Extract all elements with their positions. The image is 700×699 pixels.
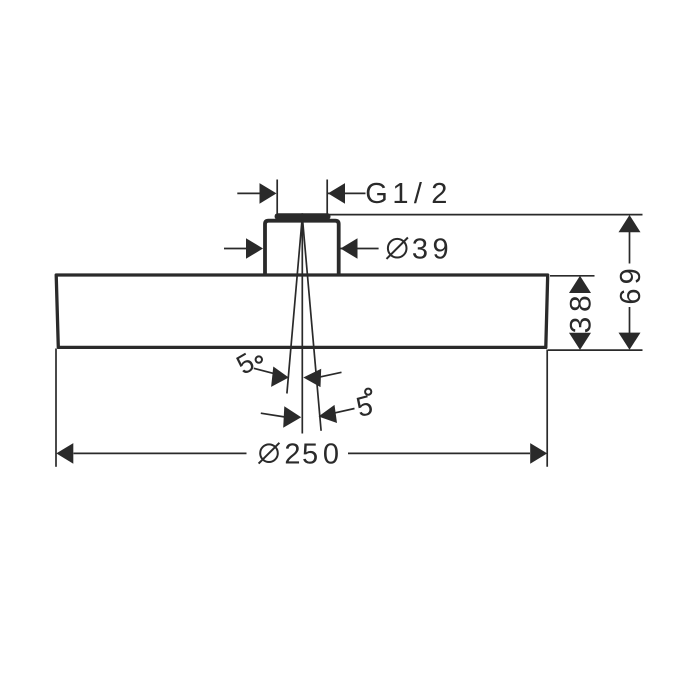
shower plate disc outline: [56, 275, 548, 347]
69 dimension line lower segment: [629, 307, 631, 334]
dia250 diameter symbol: [260, 444, 278, 462]
left 5-degree spray line: [287, 220, 302, 394]
G1/2 left arrowhead: [260, 183, 277, 204]
thread cap (filled): [275, 213, 331, 219]
right 5-degree spray line: [303, 220, 322, 431]
G1/2 right leader: [328, 192, 366, 194]
svg-text:9: 9: [433, 234, 449, 266]
top extension line for 38: [550, 275, 595, 277]
G1/2 right arrowhead: [328, 183, 345, 204]
dia250 dimension line right segment: [348, 452, 530, 454]
69 up arrowhead: [619, 215, 641, 232]
svg-text:1: 1: [392, 178, 408, 210]
lower-left 5deg leader: [261, 413, 285, 417]
dia250 left arrowhead: [56, 443, 73, 464]
svg-text:0: 0: [323, 439, 339, 471]
label 5deg upper-left degree sign: [256, 356, 262, 362]
G1/2 left extension line: [276, 180, 278, 214]
upper-right 5deg arrowhead: [303, 369, 321, 387]
top extension line for 69: [327, 214, 643, 216]
svg-text:2: 2: [431, 178, 447, 210]
G1/2 right extension line: [326, 180, 328, 215]
upper-right 5deg leader: [319, 372, 342, 377]
upper-left 5deg leader: [254, 368, 274, 373]
lower-right 5deg leader: [333, 409, 355, 414]
svg-text:5: 5: [231, 347, 259, 380]
svg-text:9: 9: [615, 268, 647, 284]
69 down arrowhead: [619, 333, 641, 350]
bottom extension line for 38 and 69: [548, 349, 643, 351]
69 dimension line upper segment: [629, 231, 631, 264]
G1/2 left leader: [237, 192, 261, 194]
svg-text:5: 5: [353, 389, 376, 423]
lower-left 5deg arrowhead: [283, 406, 301, 428]
dia39 diameter symbol: [388, 239, 407, 258]
dia250 right arrowhead: [530, 443, 547, 464]
svg-text:2: 2: [284, 439, 300, 471]
dia39 right arrowhead: [341, 238, 358, 259]
svg-text:/: /: [414, 178, 423, 210]
dia39 left leader: [224, 248, 248, 250]
svg-text:6: 6: [615, 288, 647, 304]
svg-text:3: 3: [564, 317, 597, 334]
dia250 left extension line: [55, 349, 57, 467]
upper-left 5deg arrowhead: [271, 367, 289, 387]
svg-text:5: 5: [302, 439, 318, 471]
dia39 left arrowhead: [246, 238, 263, 259]
dia250 dimension line left segment: [74, 452, 247, 454]
dia39 right leader: [341, 248, 379, 250]
center line: [301, 213, 303, 433]
svg-text:8: 8: [564, 295, 597, 312]
lower-right 5deg arrowhead: [319, 405, 338, 423]
svg-text:G: G: [365, 178, 388, 210]
label 5deg lower-right degree sign: [365, 389, 371, 395]
dia250 right extension line: [546, 350, 548, 467]
connector block outline: [265, 221, 339, 276]
svg-text:3: 3: [412, 234, 428, 266]
38 down arrowhead: [569, 333, 591, 350]
38 up arrowhead: [569, 276, 591, 293]
